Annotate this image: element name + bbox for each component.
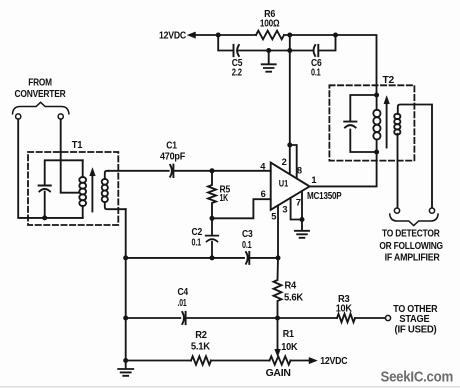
terminal circle T2 secondary right	[429, 208, 434, 213]
svg-text:OR FOLLOWING: OR FOLLOWING	[379, 241, 443, 252]
svg-text:TO DETECTOR: TO DETECTOR	[382, 229, 440, 240]
node dot left rail / bottom rail	[123, 358, 128, 363]
svg-text:T1: T1	[72, 140, 83, 151]
ground bottom left	[118, 361, 133, 376]
terminal circle converter left	[16, 114, 21, 119]
resistor R4	[274, 258, 282, 318]
resistor R1 (gain pot)	[270, 356, 291, 364]
ground under U1	[295, 220, 309, 238]
svg-text:IF AMPLIFIER: IF AMPLIFIER	[385, 252, 440, 263]
wire middle rail with C4	[126, 317, 386, 319]
terminal circle converter right	[58, 114, 63, 119]
svg-text:SeekIC.com: SeekIC.com	[381, 370, 454, 386]
svg-text:U1: U1	[279, 179, 289, 189]
node dot C2 bottom	[210, 255, 215, 260]
svg-text:(IF USED): (IF USED)	[395, 324, 437, 335]
capacitor C1	[170, 165, 173, 177]
wire arrowhead to 12VDC top	[188, 32, 196, 38]
node dot C1/R5	[210, 168, 215, 173]
svg-text:0.1: 0.1	[192, 238, 202, 249]
node dot R5 bottom	[210, 216, 215, 221]
resistor R5	[208, 171, 216, 219]
wire C1 to pin 4	[173, 170, 270, 172]
wire top rail 12VDC to T2 corner	[190, 35, 377, 95]
wire pin 3 to ground junction	[291, 198, 302, 220]
svg-text:8: 8	[297, 165, 302, 175]
T1 secondary winding	[105, 171, 126, 209]
wire T1 cap bottom	[44, 192, 46, 218]
node dot pin7 ground	[300, 217, 305, 222]
svg-text:CONVERTER: CONVERTER	[15, 89, 66, 100]
svg-text:1: 1	[311, 175, 316, 185]
svg-text:10K: 10K	[336, 303, 352, 314]
wire arrowhead to 12VDC bottom	[309, 357, 317, 363]
wire pin 6	[212, 199, 271, 218]
svg-text:C4: C4	[177, 287, 188, 298]
svg-text:C3: C3	[242, 229, 253, 240]
svg-text:R1: R1	[283, 329, 295, 340]
svg-text:GAIN: GAIN	[266, 368, 291, 379]
wire pin 8 branch	[290, 145, 297, 178]
node dot T1 tank bottom	[42, 215, 47, 220]
ground top (under R6 branch)	[262, 51, 276, 72]
svg-text:100Ω: 100Ω	[260, 19, 280, 30]
transformer T1 dashed box	[28, 152, 118, 225]
svg-text:6: 6	[261, 189, 266, 199]
FROM CONVERTER brace	[13, 102, 69, 114]
op-amp U1 triangle	[271, 163, 310, 210]
node dot top rail pin2 drop	[287, 33, 292, 38]
svg-text:5.6K: 5.6K	[284, 292, 303, 303]
T1 primary winding	[82, 160, 84, 218]
arrow in T1	[91, 175, 93, 212]
svg-text:5.1K: 5.1K	[191, 342, 210, 353]
svg-text:R2: R2	[195, 330, 207, 341]
terminal circle T2 secondary left	[394, 208, 399, 213]
capacitor C2	[206, 218, 218, 258]
capacitor in T1	[39, 186, 51, 192]
wire right terminal down to coil tap	[61, 119, 79, 193]
svg-text:C2: C2	[192, 227, 203, 238]
svg-text:2.2: 2.2	[232, 68, 243, 79]
svg-text:0.1: 0.1	[242, 240, 252, 251]
wire T2 cap branch	[350, 95, 376, 152]
node dot top rail left	[216, 33, 221, 38]
transformer T2 dashed box	[329, 85, 414, 160]
T2 primary winding	[376, 95, 378, 152]
capacitor C5	[234, 45, 239, 56]
node dot T2 primary bottom	[374, 150, 379, 155]
svg-text:0.1: 0.1	[311, 68, 321, 79]
svg-text:12VDC: 12VDC	[159, 31, 186, 42]
wire R1 wiper from middle rail	[277, 318, 279, 351]
svg-text:470pF: 470pF	[160, 152, 185, 163]
capacitor C4	[182, 312, 185, 324]
terminal circle to other stage	[385, 315, 390, 320]
wire pin 5 to bottom rail	[277, 206, 279, 258]
svg-text:5: 5	[271, 212, 276, 222]
node dot pin5/R4/C3	[276, 255, 281, 260]
wire C3 rail	[126, 257, 278, 259]
node dot top rail C6 drop	[333, 33, 338, 38]
wire pin 2 vertical from top rail	[289, 35, 291, 174]
brace to detector	[390, 214, 438, 226]
capacitor in T2	[344, 122, 356, 128]
wire left terminal down to tank bottom	[18, 119, 83, 218]
node dot T2 primary top	[374, 93, 379, 98]
node dot branch pin2 crossing	[287, 48, 292, 53]
wire C1 input from T1 secondary	[109, 170, 169, 172]
node dot left rail / C3 rail	[123, 255, 128, 260]
wire left rail from T1 secondary bottom	[125, 209, 127, 360]
T2 secondary winding	[398, 105, 433, 208]
svg-text:4: 4	[260, 162, 266, 172]
svg-text:10K: 10K	[281, 342, 297, 353]
node dot pin8 branch	[287, 143, 292, 148]
svg-text:2: 2	[282, 157, 287, 167]
capacitor C6	[314, 45, 319, 56]
resistor R3	[337, 314, 355, 322]
svg-text:T2: T2	[383, 75, 395, 86]
node dot branch ground	[266, 48, 271, 53]
svg-text:3: 3	[282, 205, 287, 215]
wire bottom rail	[126, 360, 310, 362]
node dot left rail / C4 rail	[123, 316, 128, 321]
resistor R6	[256, 31, 284, 40]
svg-text:7: 7	[296, 197, 301, 207]
wire U1 output to T2 primary	[310, 152, 377, 186]
svg-text:FROM: FROM	[28, 78, 52, 89]
svg-text:C1: C1	[166, 141, 177, 152]
arrow in T2	[386, 103, 388, 148]
node dot R4 bottom	[275, 316, 280, 321]
scan artifact bottom edge	[0, 386, 460, 387]
svg-text:.01: .01	[178, 298, 188, 309]
svg-text:12VDC: 12VDC	[320, 356, 347, 367]
svg-text:1K: 1K	[220, 193, 229, 204]
svg-text:R4: R4	[285, 281, 297, 292]
resistor R2	[191, 356, 211, 364]
wire T1 tank top	[45, 160, 83, 185]
svg-text:MC1350P: MC1350P	[307, 191, 342, 202]
wire pin 7 to ground	[301, 191, 303, 219]
capacitor C3	[246, 252, 249, 264]
wire C5-C6 branch	[218, 35, 335, 51]
